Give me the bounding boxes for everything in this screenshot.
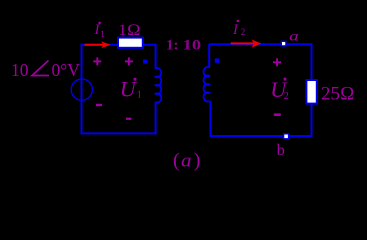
- polarity dot secondary: [215, 58, 219, 62]
- label U1 minus: [126, 118, 131, 120]
- svg-text:1:: 1:: [166, 37, 179, 53]
- wire: secondary top: [209, 43, 311, 45]
- wire: secondary left upper: [208, 44, 210, 68]
- label U2 plus: [273, 58, 281, 66]
- svg-text:b: b: [277, 142, 285, 159]
- label source minus: [96, 104, 102, 106]
- svg-text:1: 1: [100, 29, 105, 39]
- label U2 minus: [274, 113, 281, 116]
- label current I2: [232, 20, 245, 39]
- label voltage U2: [270, 77, 289, 102]
- label U1 plus: [125, 57, 133, 65]
- label current I1: [94, 22, 105, 39]
- node a: [281, 41, 286, 46]
- svg-text:2: 2: [284, 91, 289, 102]
- wire: primary right lower: [155, 102, 157, 135]
- source VS1 circle: [71, 79, 92, 100]
- transformer ratio label 1:10: [166, 37, 201, 53]
- inductor L1 (transformer primary winding): [156, 68, 162, 102]
- caption (a): [173, 150, 200, 172]
- wire: primary left: [81, 44, 83, 135]
- svg-text:25Ω: 25Ω: [321, 83, 355, 104]
- inductor L2 (transformer secondary winding): [204, 67, 210, 101]
- svg-text:): ): [194, 150, 201, 172]
- svg-text:(: (: [173, 150, 180, 172]
- svg-text:1: 1: [137, 90, 142, 101]
- wire: primary bottom: [81, 132, 157, 134]
- svg-text:10: 10: [183, 37, 202, 53]
- svg-text:a: a: [181, 150, 192, 171]
- svg-text:0°V: 0°V: [52, 60, 81, 80]
- label voltage U1: [120, 77, 142, 102]
- svg-text:2: 2: [241, 27, 246, 37]
- wire: secondary left lower: [210, 101, 212, 137]
- wire: primary right upper: [155, 44, 157, 69]
- label source plus: [93, 57, 101, 65]
- svg-text:1Ω: 1Ω: [118, 22, 141, 39]
- svg-text:a: a: [289, 29, 299, 44]
- label source value 10 angle 0 V: [11, 60, 80, 80]
- polarity dot primary: [143, 60, 147, 64]
- wire: secondary right: [311, 43, 313, 137]
- node b: [284, 134, 289, 139]
- current arrow I1: [85, 41, 111, 48]
- current arrow I2: [231, 39, 261, 48]
- svg-text:10: 10: [11, 60, 29, 80]
- resistor R1: [118, 38, 143, 48]
- wire: primary top: [82, 44, 156, 46]
- resistor R2: [306, 80, 316, 104]
- wire: secondary bottom: [210, 135, 313, 137]
